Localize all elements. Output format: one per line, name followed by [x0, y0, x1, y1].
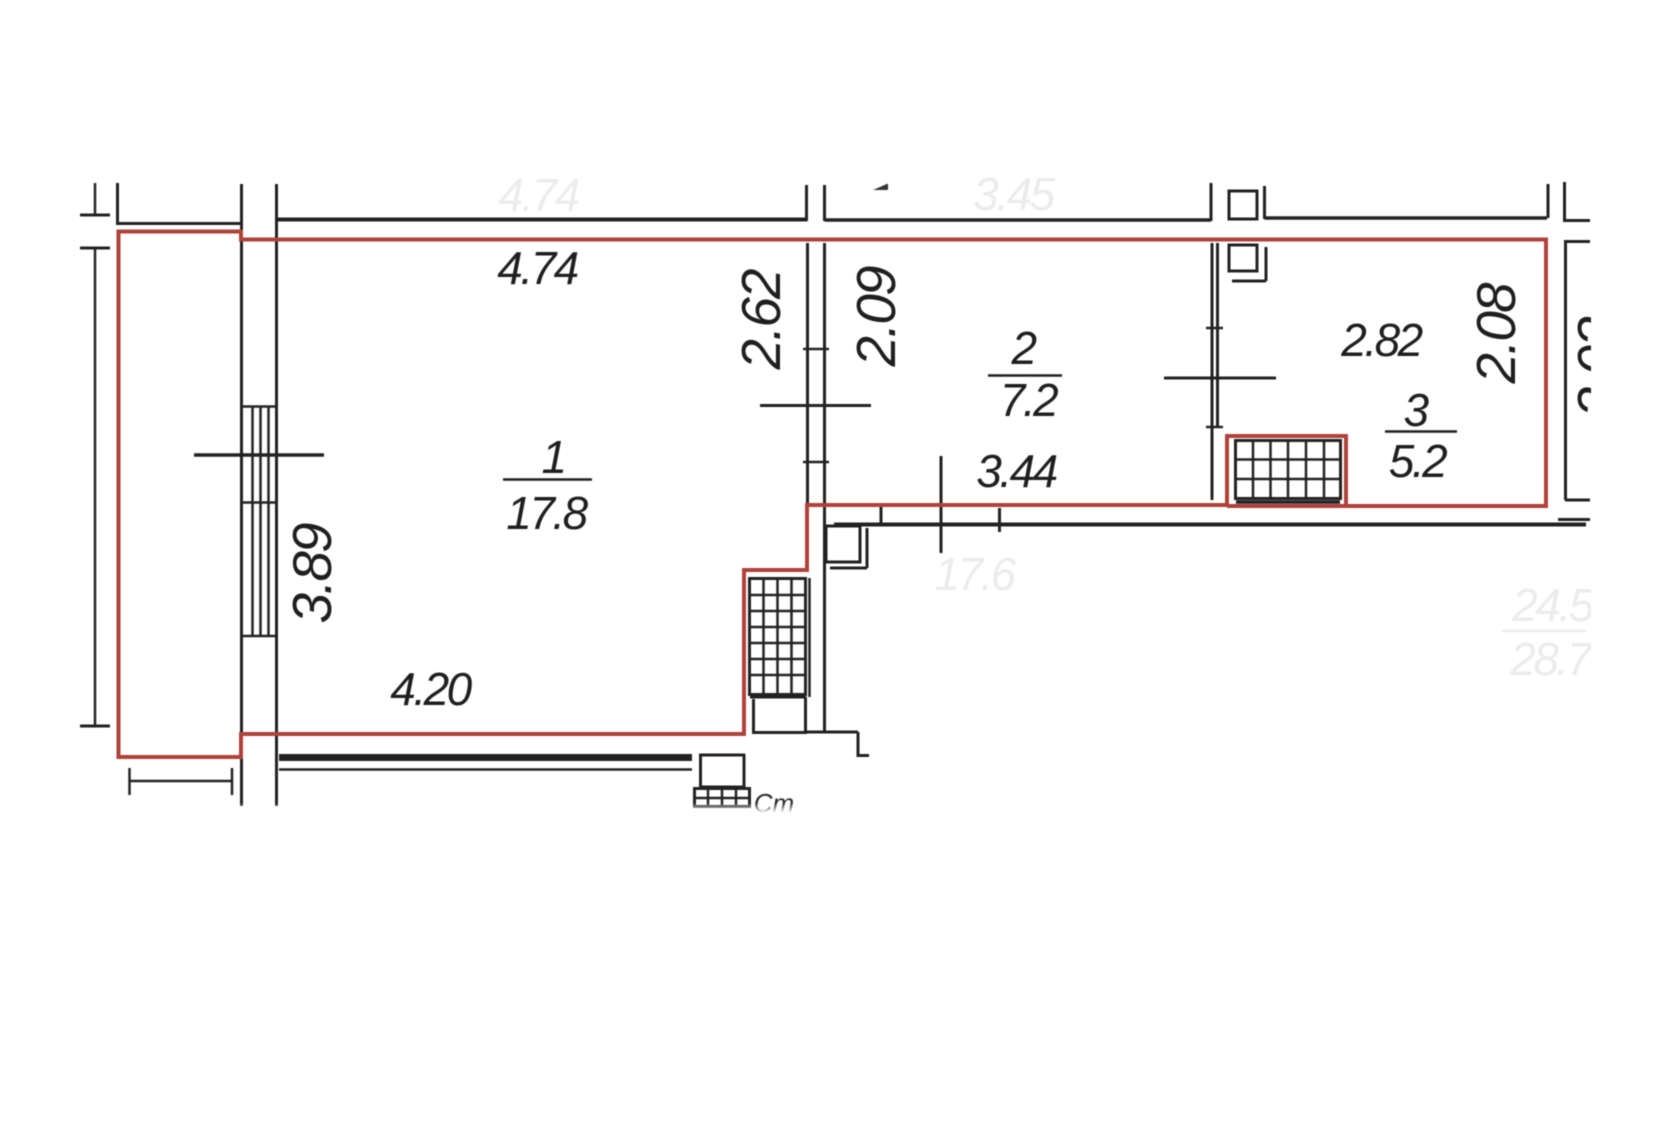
balcony dimension tick right	[231, 768, 234, 795]
svg-text:4.74: 4.74	[498, 169, 578, 221]
window bottom cap	[242, 635, 277, 638]
lower shaft box top	[699, 754, 745, 757]
left dimension line main	[94, 249, 97, 727]
room 2 fraction bar	[988, 374, 1062, 377]
shaft room1 lower box left	[752, 699, 755, 732]
wall balcony top inner line	[116, 222, 242, 225]
dimension tick 3.44 short	[998, 508, 1001, 532]
wall 1-2 joint tick lower	[803, 461, 829, 464]
wall stub right of shaft bottom	[805, 731, 858, 734]
column step horizontal below room 2	[830, 567, 867, 570]
column square above room 3	[1229, 191, 1257, 219]
left dimension tick top	[80, 214, 110, 217]
svg-text:4.20: 4.20	[390, 663, 472, 715]
wall 1-2 right line	[823, 243, 826, 503]
dimension text 2.08 rotated	[1465, 282, 1527, 384]
lower shaft box bottom	[699, 786, 745, 789]
shaft room3 grid horizontals	[1236, 460, 1340, 480]
dimension tick across wall 1-2	[760, 404, 871, 407]
wall top-right corner stub A	[1547, 184, 1550, 218]
wall stub above wall 1-2 right	[823, 185, 826, 221]
wall right of shaft room1	[823, 505, 826, 733]
lower shaft grid border	[695, 789, 750, 807]
window middle bar	[242, 501, 277, 504]
dimension tick across window	[194, 453, 324, 457]
wall 2-3 left line	[1211, 243, 1214, 500]
wall step stub right of shaft	[857, 754, 869, 757]
white cover right side	[1591, 250, 1672, 750]
wall top of room 1	[277, 218, 808, 222]
wall top of room 3	[1265, 216, 1548, 220]
lower shaft grid lines	[695, 789, 749, 806]
column step horizontal in room 3	[1232, 280, 1266, 283]
wall right neighbour bottom stub	[1565, 499, 1590, 502]
shaft room3 grid thick bottom	[1236, 500, 1340, 504]
window top cap	[242, 405, 277, 408]
svg-text:2: 2	[1010, 322, 1036, 374]
lower shaft box right	[743, 754, 746, 787]
wall top-right corner stub B	[1563, 182, 1566, 222]
room 3 fraction bar	[1385, 430, 1457, 433]
window pane line 2	[259, 406, 262, 636]
svg-text:17.6: 17.6	[934, 548, 1016, 600]
shaft room3 grid verticals	[1253, 441, 1324, 498]
svg-text:7.2: 7.2	[1000, 374, 1058, 426]
shaft room1 grid thick bottom	[750, 696, 806, 699]
svg-text:3: 3	[1403, 384, 1429, 436]
svg-text:2.08: 2.08	[1465, 282, 1527, 384]
left dimension tick bottom	[80, 725, 110, 728]
left dimension tick upper	[80, 247, 110, 250]
shaft room1 grid verticals	[764, 579, 792, 694]
lower apartment thick wall line	[279, 754, 692, 761]
lower apartment thin wall line	[279, 768, 692, 771]
bottom wall of rooms 2-3	[834, 523, 1586, 527]
shaft room1 grid right outer line	[808, 578, 811, 697]
shaft room1 lower box bottom	[752, 731, 807, 734]
wall 1-2 left line	[806, 243, 809, 503]
wall right neighbour lower tick	[1558, 518, 1590, 521]
wall top-left corner stub	[116, 183, 119, 225]
svg-text:2.09: 2.09	[845, 266, 907, 367]
wall stub right of column	[1263, 186, 1266, 219]
svg-text:24.5: 24.5	[1511, 579, 1594, 631]
wall window-wall right side	[275, 184, 278, 806]
column square below room 2	[826, 526, 860, 562]
lower shaft box left	[699, 754, 702, 787]
erased artifact wedge	[873, 184, 888, 191]
column step vertical in room 3	[1265, 247, 1268, 281]
balcony dimension line	[129, 780, 232, 783]
column step vertical below room 2	[866, 528, 869, 568]
svg-text:3.45: 3.45	[973, 168, 1055, 220]
dimension tick across wall 2-3	[1164, 377, 1276, 380]
wall 1-2 joint tick upper	[803, 348, 829, 351]
tick below room 2 wall	[880, 507, 883, 524]
wall step vertical right of shaft	[857, 732, 860, 757]
svg-text:2.62: 2.62	[730, 269, 792, 370]
room 1 fraction bar	[503, 478, 592, 481]
window pane line 3	[267, 406, 270, 636]
wall top of room 2	[825, 218, 1212, 222]
ghost fraction bar	[1502, 630, 1586, 633]
svg-text:1: 1	[541, 431, 564, 483]
balcony dimension tick left	[128, 768, 131, 795]
svg-text:17.8: 17.8	[506, 487, 588, 539]
svg-text:2.82: 2.82	[1340, 314, 1422, 366]
red apartment outline	[119, 232, 1547, 758]
wall right neighbour top stub	[1565, 240, 1590, 243]
dimension text 3.89 rotated	[281, 523, 343, 623]
shaft room1 lower box right	[804, 697, 807, 732]
dimension text 2.62 rotated	[730, 269, 792, 370]
shaft room3 grid border	[1236, 441, 1341, 499]
window pane line 1	[251, 406, 254, 636]
wall stub above wall 2-3	[1210, 183, 1213, 221]
svg-text:3.44: 3.44	[976, 445, 1056, 497]
bottom white	[0, 813, 1672, 1122]
wall 2-3 joint tick lower	[1206, 426, 1223, 429]
wall top-right tick	[1564, 219, 1590, 222]
clipped neighbour dimension rotated	[1566, 316, 1628, 417]
left dimension line top stub	[94, 183, 97, 216]
bottom fade	[0, 803, 1672, 813]
red shaft room3 box bottom	[1227, 504, 1346, 508]
shaft room1 grid border	[750, 579, 806, 695]
dimension tick 3.44 long	[940, 456, 943, 553]
column square in room 3	[1229, 245, 1257, 271]
wall stub above wall 1-2 left	[805, 185, 808, 221]
dimension text 2.09 rotated	[845, 266, 907, 367]
svg-text:4.74: 4.74	[497, 242, 577, 294]
wall 2-3 joint tick upper	[1206, 327, 1223, 330]
svg-text:28.7: 28.7	[1509, 633, 1593, 685]
svg-text:3.89: 3.89	[281, 523, 343, 623]
shaft room1 grid horizontals	[750, 595, 805, 675]
wall window-wall left side	[240, 184, 243, 806]
svg-text:5.2: 5.2	[1389, 435, 1447, 487]
wall 2-3 right line	[1216, 243, 1219, 428]
wall right neighbour vertical	[1564, 240, 1567, 500]
